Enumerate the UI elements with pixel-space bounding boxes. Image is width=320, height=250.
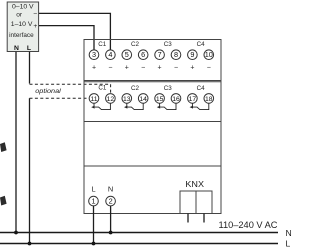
svg-text:+: + [92, 64, 96, 71]
svg-text:6: 6 [141, 50, 145, 59]
svg-text:15: 15 [156, 96, 164, 103]
junction dot N [14, 231, 18, 235]
svg-text:3: 3 [92, 50, 96, 59]
svg-text:+: + [158, 64, 162, 71]
svg-text:optional: optional [35, 88, 61, 95]
terminal 14 [138, 94, 148, 104]
terminal 2 [106, 196, 116, 206]
svg-text:8: 8 [174, 50, 178, 59]
terminal 7 [155, 50, 165, 60]
svg-text:12: 12 [107, 96, 115, 103]
wire: interface L down (ends, optional link) [29, 52, 31, 84]
relay contact C2 (terminals 13-14) [124, 103, 143, 109]
svg-text:L: L [27, 45, 31, 52]
svg-text:C4: C4 [197, 41, 205, 48]
wire: L branch down to L rail [29, 98, 31, 243]
N rail [0, 232, 278, 234]
svg-text:C3: C3 [164, 41, 172, 48]
section line below terminal row 1 [84, 80, 221, 82]
svg-text:10: 10 [205, 50, 213, 59]
terminal 8 [171, 50, 181, 60]
terminal 16 [171, 94, 181, 104]
svg-text:L: L [91, 185, 95, 194]
terminal 17 [188, 94, 198, 104]
section line below terminal row 2 [84, 121, 221, 123]
svg-text:C2: C2 [131, 85, 139, 92]
junction dot L [28, 242, 32, 246]
svg-text:−: − [207, 64, 211, 71]
svg-text:N: N [14, 45, 19, 52]
svg-text:13: 13 [123, 96, 131, 103]
KNX bus terminal block [180, 191, 212, 214]
svg-text:−: − [108, 64, 112, 71]
svg-text:+: + [33, 23, 37, 30]
svg-text:1: 1 [91, 197, 95, 206]
svg-text:+: + [125, 64, 129, 71]
terminal 12 [106, 94, 116, 104]
svg-text:KNX: KNX [185, 179, 204, 189]
wire terminal 2 to N rail [110, 206, 112, 233]
relay contact C4 (terminals 17-18) [190, 103, 209, 109]
wire: interface minus to terminal 4 [39, 13, 111, 50]
svg-text:17: 17 [189, 96, 197, 103]
terminal 18 [204, 94, 214, 104]
svg-text:or: or [16, 12, 23, 19]
terminal 11 [89, 94, 99, 104]
svg-text:1–10 V: 1–10 V [11, 21, 33, 28]
wall mark 2 [0, 196, 7, 206]
svg-text:C1: C1 [98, 41, 106, 48]
svg-text:C1: C1 [98, 85, 106, 92]
svg-text:−: − [33, 11, 37, 18]
section line above terminal row 2 [84, 81, 221, 83]
section line above bottom section [84, 165, 221, 167]
L rail [0, 243, 278, 245]
svg-text:interface: interface [9, 32, 34, 39]
svg-text:−: − [174, 64, 178, 71]
svg-text:11: 11 [90, 96, 97, 103]
junction dot terminal1/L rail [92, 242, 96, 246]
svg-text:N: N [286, 228, 292, 238]
terminal 1 [89, 196, 99, 206]
wall mark 1 [0, 142, 7, 152]
svg-text:0–10 V: 0–10 V [12, 3, 34, 10]
terminal 15 [155, 94, 165, 104]
svg-text:L: L [286, 238, 291, 248]
svg-text:N: N [108, 185, 113, 194]
svg-text:16: 16 [172, 96, 180, 103]
wire: interface N down to N rail [15, 52, 17, 233]
svg-text:110–240 V AC: 110–240 V AC [219, 220, 279, 230]
terminal 5 [122, 50, 132, 60]
svg-text:+: + [190, 64, 194, 71]
svg-text:18: 18 [205, 96, 213, 103]
relay contact C3 (terminals 15-16) [157, 103, 176, 109]
terminal 3 [89, 50, 99, 60]
svg-text:C2: C2 [131, 41, 139, 48]
KNX bus stub 1 [187, 214, 189, 223]
terminal 10 [204, 50, 214, 60]
relay contact C1 (terminals 11-12) [91, 103, 110, 109]
svg-text:C3: C3 [164, 85, 172, 92]
KNX bus stub 2 [203, 214, 205, 223]
terminal 13 [122, 94, 132, 104]
svg-text:−: − [141, 64, 145, 71]
svg-text:C4: C4 [197, 85, 205, 92]
svg-text:14: 14 [139, 96, 147, 103]
svg-text:7: 7 [158, 50, 162, 59]
dashed optional wire terminal 11 to L rail [30, 97, 90, 99]
junction dot terminal2/N rail [109, 231, 113, 235]
wire terminal 1 to L rail [93, 206, 95, 244]
svg-text:4: 4 [108, 50, 112, 59]
wire: interface plus to terminal 3 [39, 26, 94, 50]
terminal 4 [106, 50, 116, 60]
terminal 6 [138, 50, 148, 60]
0-10V / 1-10V interface unit [7, 2, 38, 52]
dashed optional wire L to terminal 12 [30, 84, 111, 92]
svg-text:5: 5 [125, 50, 129, 59]
svg-text:9: 9 [190, 50, 194, 59]
svg-text:2: 2 [109, 197, 113, 206]
terminal 9 [188, 50, 198, 60]
actuator device outline [84, 40, 221, 214]
